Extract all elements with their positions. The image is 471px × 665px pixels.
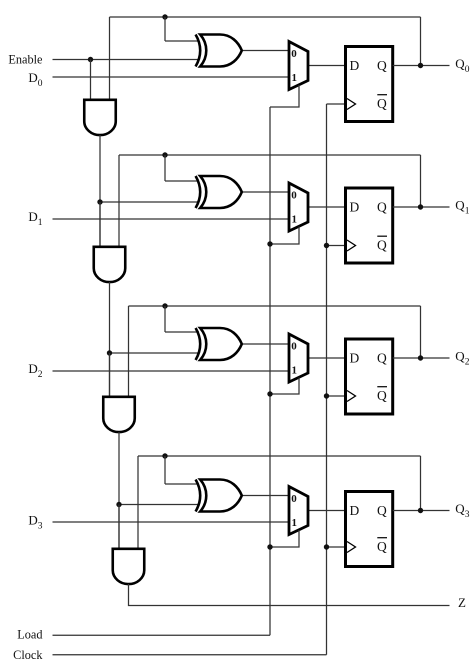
node Q3 output junction <box>418 508 423 513</box>
wire Q3 output line <box>393 510 450 512</box>
clock pin triangle U1 <box>347 99 356 110</box>
wire AND A2 output down <box>109 282 111 396</box>
node Q1 output junction <box>418 204 423 209</box>
wire AND A3 output down <box>118 432 120 548</box>
node clock join on Clock bus stage 2 <box>324 393 329 398</box>
wire feedback drop to XOR stage 2 <box>164 306 166 332</box>
svg-text:D: D <box>350 200 360 215</box>
flip-flop U1 <box>346 47 393 122</box>
wire mux select stage 1 <box>270 227 299 245</box>
svg-text:1: 1 <box>292 517 298 529</box>
wire carry drop to AND gate A4 <box>118 505 120 549</box>
svg-text:Z: Z <box>458 595 466 610</box>
wire mux output to flip-flop D stage 1 <box>308 206 346 208</box>
node clock join on Clock bus stage 1 <box>324 243 329 248</box>
wire feedback drop to AND stage 2 <box>128 306 130 396</box>
svg-text:Q: Q <box>377 58 387 73</box>
node Q2 output junction <box>418 355 423 360</box>
wire mux output to flip-flop D stage 3 <box>308 510 346 512</box>
node carry junction stage 1 <box>97 199 102 204</box>
svg-text:1: 1 <box>292 214 298 226</box>
svg-text:Enable: Enable <box>8 53 43 67</box>
svg-text:Q: Q <box>377 351 387 366</box>
xor gate X1 <box>196 35 201 67</box>
svg-text:Q: Q <box>377 388 387 403</box>
node Q0 output junction <box>418 63 423 68</box>
wire Q0 output line <box>393 65 450 67</box>
wire carry drop to AND gate A2 <box>99 202 101 246</box>
clock pin triangle U3 <box>347 391 356 402</box>
wire Enable drop to AND gate A1 <box>90 60 92 100</box>
wire carry drop to AND gate A3 <box>109 353 111 396</box>
wire Clock input line <box>53 654 327 656</box>
svg-text:D: D <box>350 503 360 518</box>
wire feedback drop to XOR stage 0 <box>164 17 166 41</box>
node feedback branch dot stage 2 <box>162 303 167 308</box>
wire Load input line <box>53 634 271 636</box>
wire AND A1 output down <box>99 135 101 246</box>
node carry junction stage 3 <box>116 502 121 507</box>
wire D1 input line <box>53 218 290 220</box>
svg-text:0: 0 <box>291 493 297 505</box>
flip-flop U2 <box>346 188 393 263</box>
wire XOR output to mux stage 1 <box>240 191 289 193</box>
node carry junction stage 2 <box>107 350 112 355</box>
xor gate X2 <box>196 176 201 208</box>
wire Clock bus vertical <box>326 104 328 655</box>
wire mux output to flip-flop D stage 2 <box>308 357 346 359</box>
node feedback branch dot stage 3 <box>162 453 167 458</box>
node feedback branch dot stage 0 <box>162 14 167 19</box>
node clock join on Clock bus stage 3 <box>324 544 329 549</box>
svg-text:Q: Q <box>377 539 387 554</box>
flip-flop U4 <box>346 492 393 567</box>
wire Q2 feedback top run <box>129 305 421 307</box>
wire clock feed stage 0 <box>327 103 348 105</box>
wire mux output to flip-flop D stage 0 <box>308 65 346 67</box>
wire AND A4 output to Z <box>129 584 450 606</box>
wire Q1 feedback vertical from output <box>420 155 422 207</box>
and gate A1 <box>84 100 116 135</box>
svg-text:1: 1 <box>292 72 298 84</box>
wire carry line into XOR stage 2 <box>110 352 200 354</box>
and gate A4 <box>113 549 145 584</box>
mux M3 <box>289 334 308 382</box>
mux M4 <box>289 487 308 535</box>
wire mux select stage 2 <box>270 378 299 395</box>
wire XOR output to mux stage 3 <box>240 495 289 497</box>
wire clock feed stage 3 <box>327 546 348 548</box>
node select join on Load bus stage 2 <box>267 391 272 396</box>
node feedback branch dot stage 1 <box>162 152 167 157</box>
svg-text:Q: Q <box>377 237 387 252</box>
wire Q0 feedback vertical from output <box>420 17 422 66</box>
xor gate X4 <box>196 480 201 512</box>
wire Q1 output line <box>393 206 450 208</box>
and gate A2 <box>94 247 126 282</box>
svg-text:Q: Q <box>377 503 387 518</box>
svg-text:D: D <box>350 58 360 73</box>
clock pin triangle U2 <box>347 240 356 251</box>
node Enable junction <box>88 57 93 62</box>
and gate A3 <box>103 397 135 432</box>
wire mux select stage 0 <box>270 85 299 107</box>
wire feedback drop to XOR stage 1 <box>164 155 166 181</box>
wire Load bus vertical <box>269 107 271 635</box>
node select join on Load bus stage 3 <box>267 544 272 549</box>
svg-text:Clock: Clock <box>13 648 43 662</box>
flip-flop U3 <box>346 339 393 414</box>
wire carry line into XOR stage 1 <box>100 201 199 203</box>
node select join on Load bus stage 1 <box>267 241 272 246</box>
wire clock feed stage 1 <box>327 245 348 247</box>
wire Q0 feedback top run <box>110 16 421 18</box>
wire D2 input line <box>53 370 290 372</box>
svg-text:0: 0 <box>291 48 297 60</box>
wire Q3 feedback top run <box>138 455 421 457</box>
wire clock feed stage 2 <box>327 395 348 397</box>
wire Q3 feedback vertical from output <box>420 456 422 511</box>
mux M1 <box>289 42 308 90</box>
wire XOR output to mux stage 0 <box>240 50 289 52</box>
svg-text:Load: Load <box>17 627 42 641</box>
svg-text:Q: Q <box>377 96 387 111</box>
wire Q2 feedback vertical from output <box>420 306 422 358</box>
svg-text:1: 1 <box>292 365 298 377</box>
wire Q2 output line <box>393 357 450 359</box>
wire Enable input line <box>53 59 200 61</box>
wire feedback drop to AND stage 3 <box>137 456 139 548</box>
wire D3 input line <box>53 521 290 523</box>
wire D0 input line <box>53 76 290 78</box>
svg-text:Q: Q <box>377 200 387 215</box>
svg-text:D: D <box>350 351 360 366</box>
clock pin triangle U4 <box>347 542 356 553</box>
wire XOR output to mux stage 2 <box>240 343 289 345</box>
svg-text:0: 0 <box>291 341 297 353</box>
wire feedback drop to XOR stage 3 <box>164 456 166 484</box>
wire mux select stage 3 <box>270 530 299 547</box>
mux M2 <box>289 183 308 231</box>
xor gate X3 <box>196 328 201 360</box>
wire Q1 feedback top run <box>119 154 421 156</box>
svg-text:0: 0 <box>291 190 297 202</box>
wire carry line into XOR stage 3 <box>119 504 199 506</box>
wire feedback drop to AND stage 1 <box>118 155 120 246</box>
wire feedback drop to AND stage 0 <box>109 17 111 99</box>
